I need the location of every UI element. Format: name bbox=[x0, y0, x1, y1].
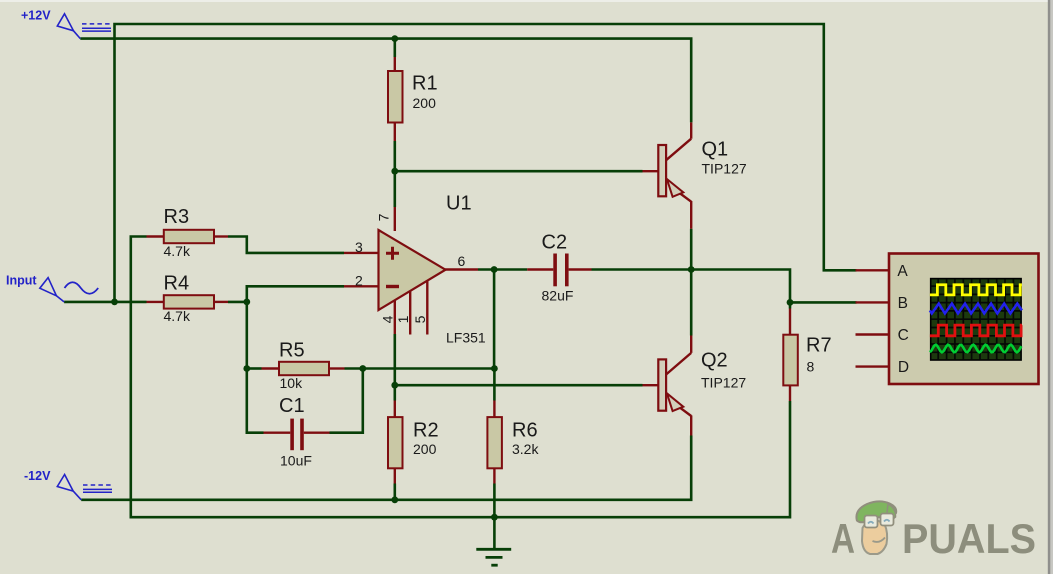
svg-text:R4: R4 bbox=[164, 273, 190, 295]
junction node R6 ground bbox=[491, 514, 498, 521]
junction node R1 top bbox=[391, 35, 398, 42]
wire node to Q1 base bbox=[395, 170, 643, 173]
resistor R1 bbox=[388, 57, 438, 141]
capacitor C2 bbox=[527, 232, 591, 304]
svg-text:D: D bbox=[898, 359, 909, 376]
junction node R4 right bbox=[243, 299, 250, 306]
svg-text:C2: C2 bbox=[542, 232, 568, 254]
wire C2 right to output node bbox=[592, 268, 692, 271]
svg-text:R5: R5 bbox=[279, 340, 305, 362]
svg-text:10uF: 10uF bbox=[280, 453, 312, 469]
junction node output bbox=[688, 266, 695, 273]
svg-text:R6: R6 bbox=[512, 420, 538, 442]
wire R1 top bbox=[393, 39, 396, 57]
svg-text:PUALS: PUALS bbox=[902, 515, 1036, 562]
wire R4 right to pin2 corner bbox=[228, 286, 344, 302]
svg-text:82uF: 82uF bbox=[542, 288, 574, 304]
svg-text:R7: R7 bbox=[806, 335, 832, 357]
oscilloscope screen bbox=[930, 278, 1022, 361]
power terminal -12V bbox=[24, 469, 112, 500]
svg-text:5: 5 bbox=[412, 315, 428, 323]
svg-text:TIP127: TIP127 bbox=[702, 161, 747, 177]
wire op-amp pin 4 down bbox=[393, 334, 396, 385]
wire R2 bottom to -12V rail bbox=[393, 484, 396, 500]
wire node to op-amp pin 7 bbox=[393, 171, 396, 207]
svg-text:LF351: LF351 bbox=[446, 330, 486, 346]
wire R5 left stub bbox=[247, 367, 262, 370]
trace D green sine wave bbox=[930, 345, 1022, 353]
resistor R5 bbox=[262, 340, 345, 392]
wire op-amp pin 6 to C2 bbox=[478, 268, 527, 271]
resistor R4 bbox=[147, 273, 229, 325]
svg-text:A: A bbox=[897, 263, 908, 280]
resistor R2 bbox=[388, 401, 439, 484]
wire output node to Q2 collector bbox=[690, 270, 693, 336]
svg-text:+12V: +12V bbox=[21, 9, 51, 23]
junction node pin4 / R2 / Q2 base bbox=[391, 382, 398, 389]
svg-text:8: 8 bbox=[807, 359, 815, 375]
wire input node to top rail to scope A bbox=[115, 24, 857, 302]
op-amp U1 bbox=[344, 193, 486, 346]
junction node R2 bottom bbox=[391, 496, 398, 503]
wire R6 bottom to ground rail bbox=[493, 484, 496, 518]
watermark APPUALS bbox=[831, 501, 1036, 562]
wire R4 node down to R5 node bbox=[246, 302, 249, 369]
svg-text:2: 2 bbox=[355, 272, 363, 288]
svg-text:3: 3 bbox=[355, 239, 363, 255]
svg-text:Q2: Q2 bbox=[701, 350, 728, 372]
wire C1 left branch bbox=[247, 369, 264, 433]
svg-text:4.7k: 4.7k bbox=[164, 308, 191, 324]
svg-text:U1: U1 bbox=[446, 193, 472, 215]
svg-text:10k: 10k bbox=[280, 375, 304, 391]
wire Q1 emitter to output node bbox=[690, 229, 693, 270]
junction node pin 6 bbox=[491, 266, 498, 273]
wire node B to scope B bbox=[790, 301, 857, 304]
resistor R6 bbox=[487, 401, 539, 484]
trace B blue triangle wave bbox=[930, 304, 1022, 314]
svg-text:B: B bbox=[898, 295, 908, 312]
ground bbox=[476, 517, 511, 565]
trace C red square wave bbox=[930, 325, 1022, 336]
svg-text:200: 200 bbox=[413, 441, 437, 457]
junction node R5 right bbox=[359, 365, 366, 372]
svg-text:C: C bbox=[898, 327, 909, 344]
transistor Q1 bbox=[643, 122, 747, 228]
transistor Q2 bbox=[643, 336, 747, 436]
wire R6 top bbox=[493, 369, 496, 401]
junction node R5 left bbox=[243, 365, 250, 372]
wire C1 right branch bbox=[330, 369, 363, 433]
svg-text:Input: Input bbox=[6, 274, 37, 288]
wire Input to R4 bbox=[64, 301, 146, 304]
svg-text:7: 7 bbox=[376, 213, 392, 221]
svg-text:3.2k: 3.2k bbox=[512, 441, 539, 457]
wire R2 top bbox=[393, 385, 396, 400]
capacitor C1 bbox=[264, 395, 330, 469]
svg-text:6: 6 bbox=[458, 253, 466, 269]
wire node B to R7 top bbox=[789, 302, 792, 308]
wire R5 right to feedback node bbox=[345, 367, 495, 370]
wire R3 right to op-amp pin 3 bbox=[228, 237, 344, 253]
wire -12V rail bbox=[81, 436, 691, 500]
junction node R1 bottom / pin7 / Q1 base bbox=[391, 168, 398, 175]
resistor R3 bbox=[147, 206, 229, 259]
svg-text:4: 4 bbox=[379, 315, 395, 323]
resistor R7 bbox=[783, 309, 831, 402]
svg-text:C1: C1 bbox=[279, 395, 305, 417]
wire R1 bottom to node bbox=[393, 141, 396, 171]
wire +12V rail bbox=[80, 39, 691, 123]
svg-text:R2: R2 bbox=[413, 420, 439, 442]
svg-text:A: A bbox=[831, 515, 855, 562]
generator Input bbox=[6, 274, 98, 302]
wire pin6 node down to feedback node bbox=[493, 270, 496, 369]
trace A yellow square wave bbox=[930, 285, 1022, 295]
power terminal +12V bbox=[21, 9, 111, 39]
wire pin4 node to Q2 base bbox=[395, 384, 643, 387]
svg-text:4.7k: 4.7k bbox=[164, 243, 191, 259]
svg-text:-12V: -12V bbox=[24, 469, 51, 483]
wire R3 left to ground rail bbox=[131, 237, 790, 518]
svg-text:Q1: Q1 bbox=[702, 139, 729, 161]
junction node B / R7 bbox=[787, 299, 794, 306]
wire output node to scope B corner bbox=[691, 270, 790, 303]
svg-text:TIP127: TIP127 bbox=[701, 375, 746, 391]
svg-text:R3: R3 bbox=[164, 206, 190, 228]
junction node feedback / R6 bbox=[491, 365, 498, 372]
junction node Input bbox=[111, 299, 118, 306]
svg-text:1: 1 bbox=[395, 315, 411, 323]
svg-text:R1: R1 bbox=[412, 73, 438, 95]
oscilloscope bbox=[856, 254, 1039, 385]
svg-text:200: 200 bbox=[413, 95, 437, 111]
